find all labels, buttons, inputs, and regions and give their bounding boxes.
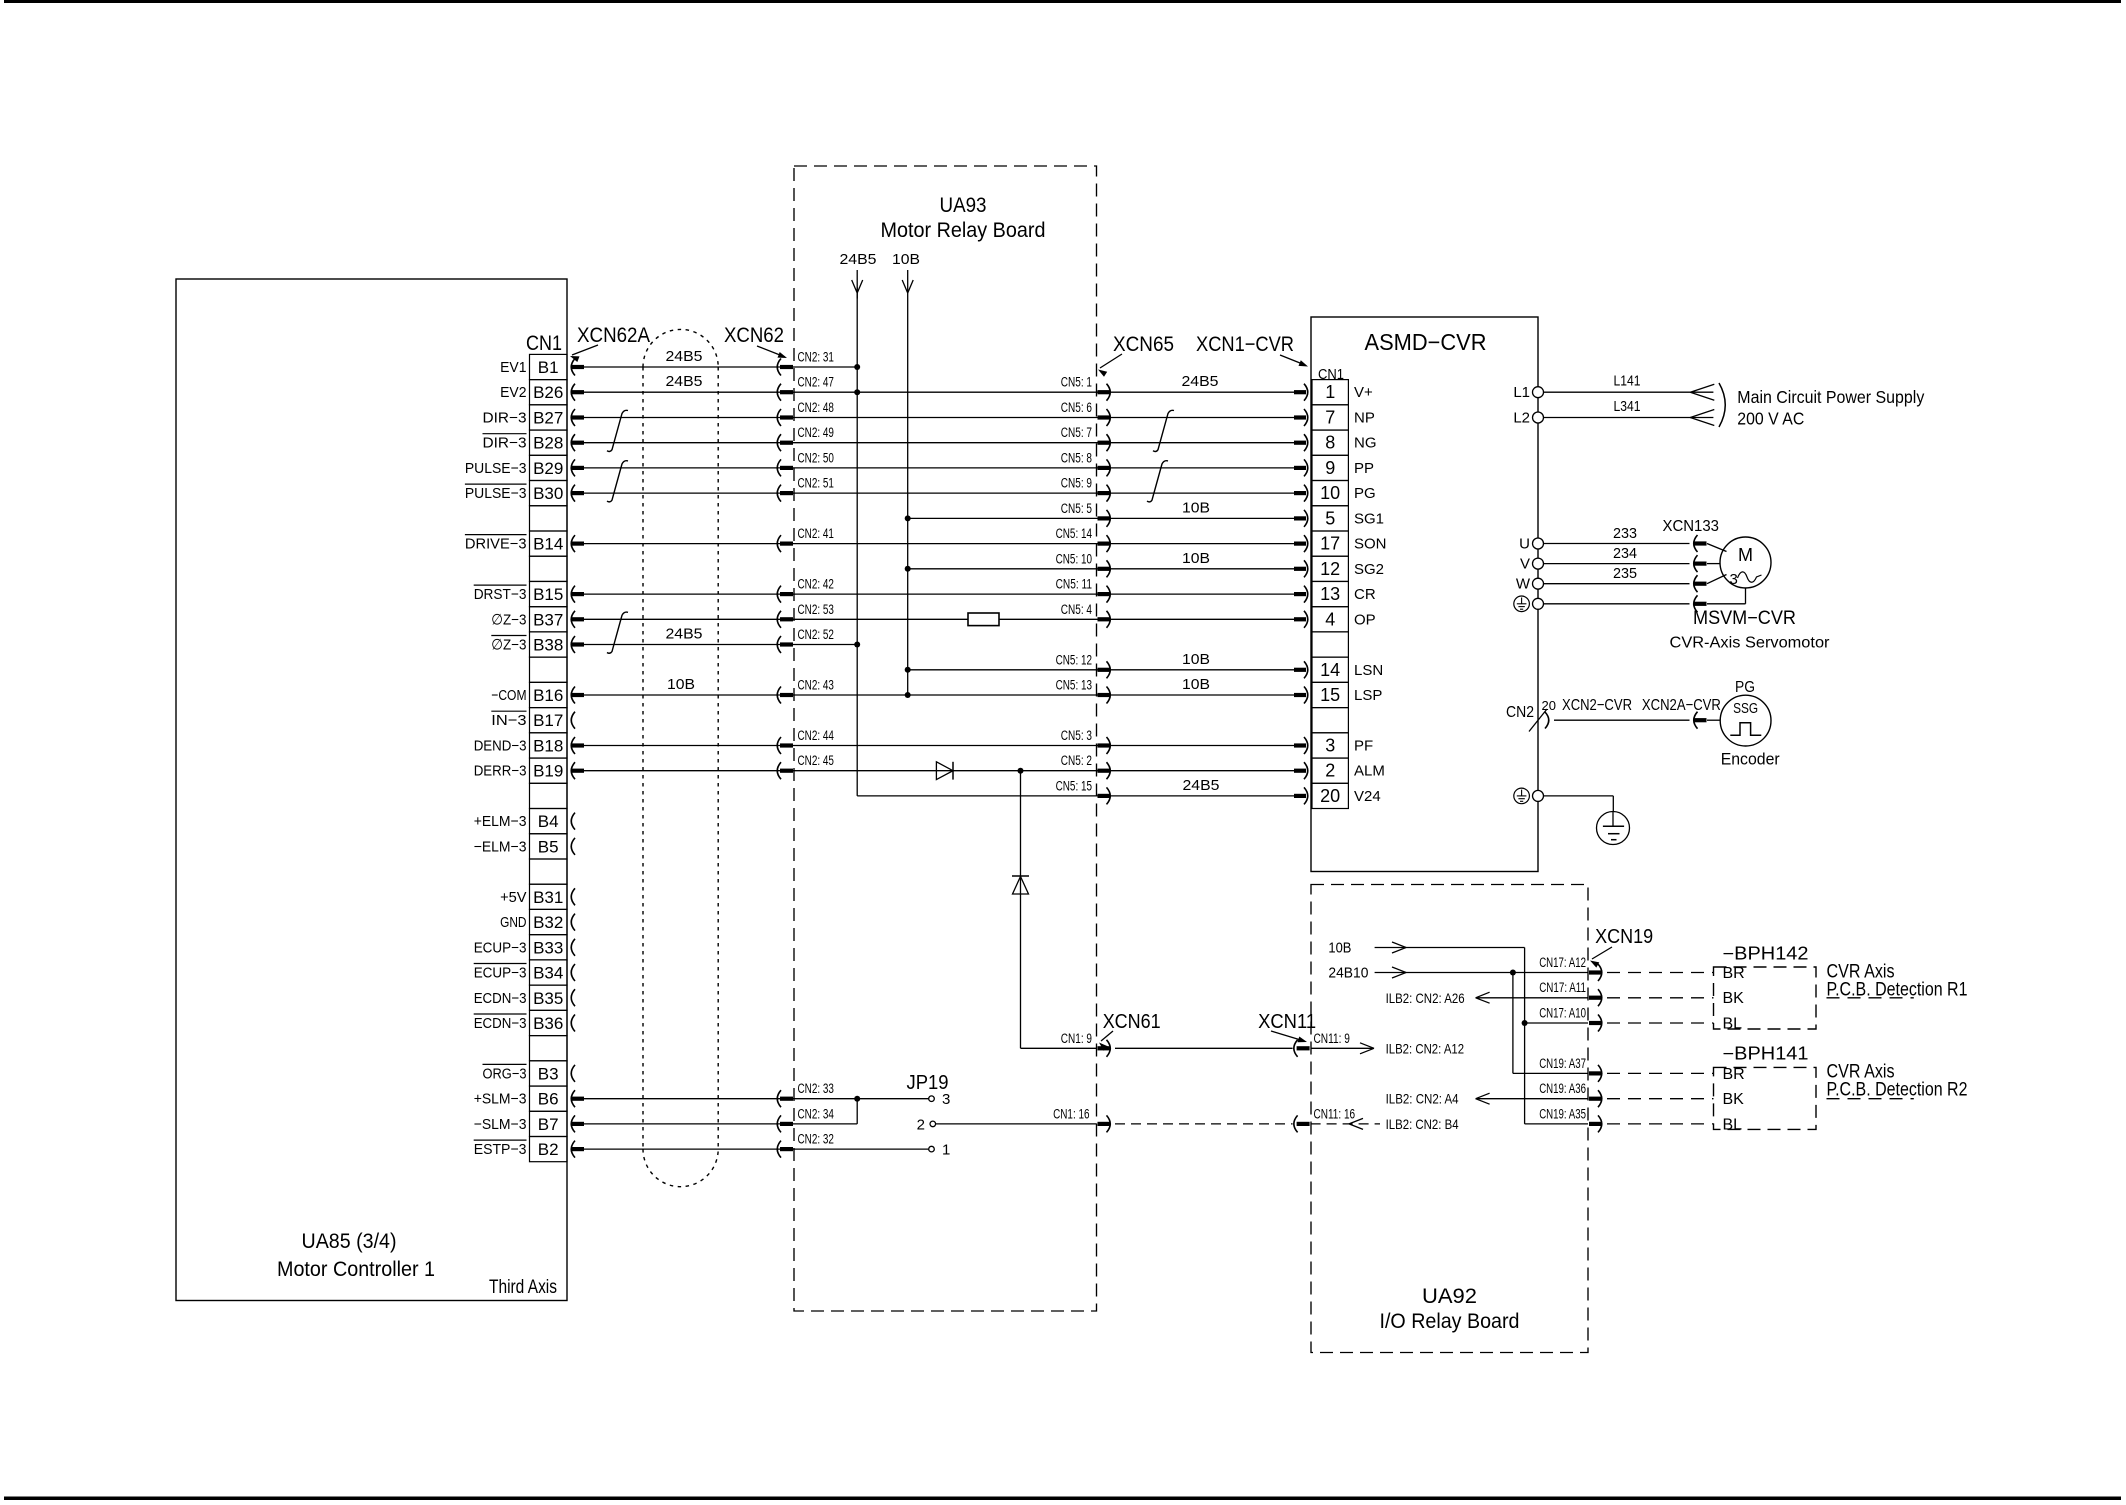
CN1 pin cell empty row 27 (530, 1036, 568, 1061)
svg-text:235: 235 (1613, 565, 1637, 582)
wire PE to earth (1544, 795, 1614, 797)
connector XCN62 CN2:31 (777, 359, 781, 376)
connector pin B19 (571, 762, 575, 779)
connector XCN62 CN2:42 (777, 586, 781, 603)
wire row CN2: 49 CN5: 7 (584, 442, 1294, 444)
motor circle MSVM-CVR (1720, 537, 1771, 588)
connector XCN11 CN11:9 (1294, 1040, 1298, 1057)
dashed wire CN17: A10 to BPH (1607, 1022, 1714, 1024)
svg-text:20: 20 (1542, 698, 1556, 713)
svg-text:CN5: 10: CN5: 10 (1056, 551, 1092, 566)
svg-text:B34: B34 (533, 964, 563, 983)
svg-text:CN11: 9: CN11: 9 (1314, 1031, 1350, 1046)
wire B26 CN2:47 CN5:1 to ASMD pin1 (584, 391, 1294, 393)
svg-text:24B10: 24B10 (1328, 965, 1368, 982)
svg-text:CN1: 16: CN1: 16 (1053, 1106, 1089, 1121)
wire row CN2: 48 CN5: 6 (584, 417, 1294, 419)
connector XCN62 CN2:45 (777, 762, 781, 779)
wire B7 CN2:34 elbow (584, 1123, 857, 1125)
connector ASMD SG2 (1294, 567, 1306, 571)
connector CN5:1 (1098, 390, 1110, 394)
wire 24B5 vertical (856, 270, 858, 796)
terminal PE motor (1533, 598, 1544, 609)
connector pin B3 (571, 1065, 575, 1082)
dashed stub to ILB2 CN2:B4 (1311, 1123, 1380, 1125)
svg-text:CN5: 12: CN5: 12 (1056, 652, 1092, 667)
svg-text:B26: B26 (533, 383, 563, 402)
arrow 24B5 down (852, 280, 858, 293)
dashed wire CN17: A12 to BPH (1607, 972, 1714, 974)
wire 10B to CN5:5 SG1 (908, 517, 1294, 519)
svg-text:B33: B33 (533, 938, 563, 957)
wire 10B to CN5:10 SG2 (908, 568, 1294, 570)
svg-text:CN2: 32: CN2: 32 (798, 1132, 834, 1147)
svg-text:10B: 10B (1182, 499, 1210, 516)
svg-text:LSP: LSP (1354, 687, 1382, 704)
svg-text:CN17: A12: CN17: A12 (1539, 955, 1586, 970)
wire B1 to CN2:31 (584, 366, 857, 368)
CN1 pin cell B33 (530, 935, 568, 960)
JP19 pin 3 (929, 1096, 935, 1102)
svg-text:B6: B6 (538, 1090, 559, 1109)
connector pin B14 (571, 535, 575, 552)
svg-text:SG1: SG1 (1354, 510, 1384, 527)
earth ground symbol (1597, 812, 1630, 845)
svg-text:ILB2: CN2: A26: ILB2: CN2: A26 (1386, 990, 1465, 1006)
connector pin B35 (571, 989, 575, 1006)
svg-text:DRIVE−3: DRIVE−3 (465, 536, 527, 553)
connector pin B15 (571, 586, 575, 603)
connector CN5:10 (1098, 567, 1110, 571)
arrow XCN19 (1592, 947, 1612, 959)
arrow XCN62 (757, 346, 785, 357)
ASMD CN1 pin cell 17 (1312, 531, 1348, 556)
arrow XCN61 (1101, 1031, 1113, 1041)
svg-text:7: 7 (1325, 408, 1335, 428)
wire B38 CN2:52 to 24B5 (584, 644, 857, 646)
svg-text:W: W (1516, 576, 1531, 593)
resistor on OP line (968, 613, 999, 626)
arrow 10B down (902, 280, 908, 293)
svg-text:XCN62A: XCN62A (577, 324, 650, 347)
svg-text:CN5: 5: CN5: 5 (1061, 501, 1092, 516)
svg-text:ECDN−3: ECDN−3 (474, 1015, 527, 1032)
svg-text:CN2: 49: CN2: 49 (798, 425, 834, 440)
wire CN1:9 to XCN11 (1115, 1047, 1293, 1049)
svg-text:CN5: 4: CN5: 4 (1061, 602, 1093, 617)
connector pin B16 (571, 687, 575, 704)
connector CN5:12 (1098, 668, 1110, 672)
svg-text:20: 20 (1320, 786, 1340, 806)
connector CN5:14 (1098, 542, 1110, 546)
UA93 Motor Relay Board dashed box (794, 166, 1097, 1311)
svg-text:3: 3 (1730, 571, 1738, 588)
svg-text:CN5: 15: CN5: 15 (1056, 778, 1092, 793)
CN1 pin cell B37 (530, 607, 568, 632)
svg-text:B17: B17 (533, 711, 563, 730)
svg-text:Motor Relay Board: Motor Relay Board (881, 219, 1046, 242)
UA92 I/O Relay Board dashed box (1311, 885, 1588, 1353)
connector CN5: 8 (1098, 466, 1110, 470)
svg-text:CN5: 7: CN5: 7 (1061, 425, 1092, 440)
svg-text:−SLM−3: −SLM−3 (474, 1116, 527, 1133)
junction 10B CN5:5 (905, 515, 911, 521)
svg-text:P.C.B. Detection R2: P.C.B. Detection R2 (1827, 1080, 1968, 1101)
svg-text:14: 14 (1320, 660, 1340, 680)
PE symbol at ASMD ground (1514, 788, 1530, 804)
connector ASMD LSN (1294, 668, 1306, 672)
JP19 pin 2 (930, 1121, 936, 1127)
connector XCN62 CN2:43 (777, 687, 781, 704)
svg-text:CN2: 31: CN2: 31 (798, 350, 834, 365)
junction 24B5-B1 (854, 364, 860, 370)
svg-text:B30: B30 (533, 484, 563, 503)
ASMD-CVR servo amplifier box (1311, 317, 1538, 872)
svg-text:ECDN−3: ECDN−3 (474, 990, 527, 1007)
connector pin B36 (571, 1015, 575, 1032)
CN1 pin cell B32 (530, 909, 568, 934)
CN1 pin cell B29 (530, 455, 568, 480)
svg-text:B35: B35 (533, 989, 563, 1008)
svg-text:+5V: +5V (500, 889, 526, 906)
arrow XCN65 (1100, 354, 1122, 368)
wire B15 CN2:42 CN5:11 to CR (584, 593, 1294, 595)
connector XCN62 CN2:32 (777, 1141, 781, 1158)
wire row CN2: 50 CN5: 8 (584, 467, 1294, 469)
svg-text:CN17: A10: CN17: A10 (1539, 1006, 1586, 1021)
junction 10B CN5:13 (905, 692, 911, 698)
top border bar (4, 0, 2121, 3)
CN1 pin cell B3 (530, 1061, 568, 1086)
svg-text:24B5: 24B5 (1183, 777, 1220, 794)
CN1 pin cell B16 (530, 682, 568, 707)
svg-text:EV2: EV2 (500, 384, 526, 401)
svg-text:L2: L2 (1513, 410, 1530, 427)
wire 235 (1544, 583, 1690, 585)
svg-text:CN2: 34: CN2: 34 (798, 1106, 835, 1121)
svg-text:L341: L341 (1614, 398, 1641, 415)
svg-text:Main Circuit Power Supply: Main Circuit Power Supply (1737, 387, 1924, 407)
connector CN1:16 (1098, 1122, 1110, 1126)
bottom border bar (4, 1497, 2121, 1501)
wire ALM branch vertical (1020, 771, 1022, 1049)
svg-text:XCN2A−CVR: XCN2A−CVR (1642, 697, 1721, 714)
connector pin B6 (571, 1090, 575, 1107)
svg-text:CN2: 51: CN2: 51 (798, 476, 834, 491)
CN1 pin cell B17 (530, 708, 568, 733)
svg-text:DERR−3: DERR−3 (474, 763, 527, 780)
ASMD CN1 pin cell 14 (1312, 657, 1348, 682)
ASMD CN1 pin cell 9 (1312, 455, 1348, 480)
svg-text:NG: NG (1354, 435, 1377, 452)
svg-text:CN11: 16: CN11: 16 (1314, 1106, 1356, 1121)
svg-text:12: 12 (1320, 559, 1340, 579)
ASMD CN1 pin cell 8 (1312, 430, 1348, 455)
svg-text:CN2: 52: CN2: 52 (798, 627, 834, 642)
ASMD CN1 pin cell 7 (1312, 405, 1348, 430)
svg-text:ILB2: CN2: A4: ILB2: CN2: A4 (1386, 1091, 1459, 1107)
svg-text:15: 15 (1320, 685, 1340, 705)
connector CN2 slash (1529, 709, 1547, 732)
connector pin B33 (571, 939, 575, 956)
svg-text:B32: B32 (533, 913, 563, 932)
connector ASMD CR (1294, 592, 1306, 596)
CN1 pin cell B26 (530, 380, 568, 405)
svg-text:BK: BK (1723, 1091, 1745, 1108)
svg-text:CN19: A36: CN19: A36 (1539, 1081, 1586, 1096)
connector ASMD row4 (1294, 466, 1306, 470)
CN1 pin cell B18 (530, 733, 568, 758)
svg-text:−ELM−3: −ELM−3 (474, 838, 527, 855)
svg-text:BK: BK (1723, 990, 1745, 1007)
wire 10B to CN5:12 LSN (908, 669, 1294, 671)
connector ASMD PF (1294, 743, 1306, 747)
junction 10B branch A10 (1522, 1020, 1528, 1026)
connector pin B31 (571, 888, 575, 905)
encoder pulse symbol (1730, 723, 1761, 736)
svg-text:GND: GND (500, 914, 527, 931)
CN1 pin cell empty row 12 (530, 657, 568, 682)
svg-text:10B: 10B (892, 251, 920, 268)
twist mark PULSE pair left (607, 461, 628, 502)
svg-text:CN5: 6: CN5: 6 (1061, 400, 1092, 415)
CN1 pin cell B27 (530, 405, 568, 430)
brace power supply (1719, 383, 1725, 427)
svg-text:XCN65: XCN65 (1113, 333, 1174, 356)
connector CN5:5 (1098, 516, 1110, 520)
svg-text:BL: BL (1723, 1016, 1743, 1033)
svg-text:2: 2 (917, 1116, 925, 1133)
connector CN5:2 (1098, 769, 1110, 773)
svg-text:234: 234 (1613, 545, 1637, 562)
svg-text:CN2: 50: CN2: 50 (798, 450, 834, 465)
svg-text:2: 2 (1325, 761, 1335, 781)
svg-text:BL: BL (1723, 1116, 1743, 1133)
connector pin B1 (571, 359, 575, 376)
wire L141 (1544, 391, 1714, 393)
connector ASMD OP (1294, 617, 1306, 621)
junction ALM branch (1018, 768, 1024, 774)
svg-text:B29: B29 (533, 459, 563, 478)
connector ASMD row2 (1294, 415, 1306, 419)
svg-text:1: 1 (1325, 382, 1335, 402)
svg-text:CN2: 41: CN2: 41 (798, 526, 834, 541)
svg-text:∅Z−3: ∅Z−3 (491, 637, 526, 654)
wire 10B vertical (907, 270, 909, 695)
svg-text:Encoder: Encoder (1721, 750, 1780, 769)
connector pin B18 (571, 737, 575, 754)
wire U into motor (1707, 544, 1727, 552)
diode D2 zener to CN1:9 (1012, 875, 1029, 877)
wire B14 CN2:41 CN5:14 to SON (584, 543, 1294, 545)
CN1 pin cell B28 (530, 430, 568, 455)
wire JP19 pin2 to CN1:16 (936, 1123, 1097, 1125)
svg-text:CN5: 14: CN5: 14 (1056, 526, 1093, 541)
svg-text:−BPH142: −BPH142 (1723, 944, 1809, 964)
CN1 pin cell B15 (530, 582, 568, 607)
svg-text:−COM: −COM (491, 687, 526, 704)
ASMD CN1 pin cell 4 (1312, 607, 1348, 632)
connector XCN19 CN17: A10 (1589, 1021, 1601, 1025)
svg-text:PP: PP (1354, 460, 1374, 477)
svg-text:+SLM−3: +SLM−3 (474, 1091, 527, 1108)
svg-text:CN2: 45: CN2: 45 (798, 753, 834, 768)
svg-text:CN17: A11: CN17: A11 (1539, 980, 1586, 995)
svg-text:CN5: 2: CN5: 2 (1061, 753, 1092, 768)
svg-text:B18: B18 (533, 737, 563, 756)
connector XCN62 CN2: 49 (777, 434, 781, 451)
svg-text:B28: B28 (533, 434, 563, 453)
svg-text:Third Axis: Third Axis (489, 1277, 557, 1298)
connector pin B26 (571, 384, 575, 401)
junction 10B CN5:10 (905, 566, 911, 572)
CN1 pin cell B6 (530, 1086, 568, 1111)
connector pin B2 (571, 1141, 575, 1158)
svg-text:MSVM−CVR: MSVM−CVR (1693, 608, 1796, 629)
CN1 pin cell empty row 20 (530, 859, 568, 884)
svg-text:V24: V24 (1354, 788, 1381, 805)
PE symbol at ASMD (1514, 596, 1530, 612)
svg-text:DIR−3: DIR−3 (483, 410, 527, 427)
diode D1 on ALM line (936, 762, 953, 780)
svg-text:24B5: 24B5 (666, 348, 703, 365)
encoder circle SSG (1720, 695, 1771, 746)
svg-text:+ELM−3: +ELM−3 (474, 813, 527, 830)
svg-text:CN2: 42: CN2: 42 (798, 577, 834, 592)
svg-text:M: M (1738, 545, 1753, 565)
wire V into motor (1707, 563, 1720, 565)
svg-text:CVR-Axis Servomotor: CVR-Axis Servomotor (1670, 635, 1830, 652)
connector XCN133 W (1694, 575, 1698, 592)
CN1 pin cell B4 (530, 809, 568, 834)
dashed wire CN17: A11 to BPH (1607, 997, 1714, 999)
svg-text:CN5: 9: CN5: 9 (1061, 476, 1092, 491)
svg-text:B5: B5 (538, 837, 559, 856)
svg-text:24B5: 24B5 (840, 251, 877, 268)
svg-text:DIR−3: DIR−3 (483, 435, 527, 452)
svg-text:B19: B19 (533, 762, 563, 781)
connector ASMD V24 (1294, 794, 1306, 798)
connector CN5: 9 (1098, 491, 1110, 495)
connector pin B28 (571, 434, 575, 451)
wire 24B5 elbow to CN5:15 V24 (857, 795, 1294, 797)
connector XCN62 CN2:53 (777, 611, 781, 628)
ASMD CN1 pin cell 20 (1312, 783, 1348, 808)
wire ILB2 A26 arrow (1476, 997, 1588, 999)
wire CN1:16 to CN11:16 dashed (1115, 1123, 1293, 1125)
svg-text:9: 9 (1325, 458, 1335, 478)
arrow XCN62A (572, 345, 598, 355)
svg-text:ALM: ALM (1354, 763, 1385, 780)
junction 24B5-B38 (854, 642, 860, 648)
svg-text:CN19: A37: CN19: A37 (1539, 1056, 1586, 1071)
svg-text:3: 3 (942, 1091, 950, 1108)
svg-text:B7: B7 (538, 1115, 559, 1134)
svg-text:V: V (1520, 556, 1530, 573)
cable bundle dotted oval (643, 329, 718, 367)
svg-text:CN2: 43: CN2: 43 (798, 678, 834, 693)
svg-text:B1: B1 (538, 358, 559, 377)
wire row CN2: 51 CN5: 9 (584, 492, 1294, 494)
svg-text:UA93: UA93 (940, 194, 987, 217)
connector XCN19 CN19: A36 (1589, 1097, 1601, 1101)
svg-text:PG: PG (1735, 679, 1755, 696)
connector XCN62 CN2:44 (777, 737, 781, 754)
svg-text:10B: 10B (667, 676, 695, 693)
svg-text:CR: CR (1354, 586, 1376, 603)
CN1 pin cell B2 (530, 1137, 568, 1162)
svg-text:ECUP−3: ECUP−3 (474, 965, 527, 982)
wire B19 CN2:45 CN5:2 to ALM (584, 770, 1294, 772)
svg-text:CN1: CN1 (526, 332, 562, 355)
CN1 pin cell B14 (530, 531, 568, 556)
dashed wire CN19: A35 to BPH (1607, 1123, 1714, 1125)
ASMD CN1 pin cell empty (1312, 632, 1348, 657)
svg-text:Motor Controller 1: Motor Controller 1 (277, 1258, 435, 1281)
wire W into motor (1707, 575, 1727, 584)
svg-text:24B5: 24B5 (666, 626, 703, 643)
connector CN5:3 (1098, 743, 1110, 747)
svg-text:I/O Relay Board: I/O Relay Board (1380, 1310, 1520, 1333)
svg-text:ORG−3: ORG−3 (483, 1065, 527, 1082)
ASMD CN1 pin cell 2 (1312, 758, 1348, 783)
wire B6 CN2:33 to JP19 pin3 (584, 1098, 929, 1100)
svg-text:CN5: 8: CN5: 8 (1061, 450, 1092, 465)
svg-text:B27: B27 (533, 409, 563, 428)
svg-text:DRST−3: DRST−3 (474, 586, 527, 603)
svg-text:10B: 10B (1182, 651, 1210, 668)
connector XCN133 V (1694, 555, 1698, 572)
wire ILB2 A4 arrow (1476, 1098, 1588, 1100)
wire B2 CN2:32 to JP19 pin1 (584, 1148, 929, 1150)
wire 233 (1544, 543, 1690, 545)
CN1 pin cell B1 (530, 354, 568, 379)
connector XCN19 CN19: A37 (1589, 1071, 1601, 1075)
svg-text:CN2: 44: CN2: 44 (798, 728, 835, 743)
connector XCN62 CN2:41 (777, 535, 781, 552)
svg-text:10B: 10B (1182, 550, 1210, 567)
ASMD CN1 pin cell 1 (1312, 380, 1348, 405)
junction SLM (854, 1096, 860, 1102)
connector pin B37 (571, 611, 575, 628)
svg-text:BR: BR (1723, 1066, 1745, 1083)
svg-text:XCN133: XCN133 (1663, 518, 1720, 535)
CN1 pin cell B19 (530, 758, 568, 783)
CN1 pin cell B34 (530, 960, 568, 985)
ASMD CN1 pin cell 12 (1312, 556, 1348, 581)
svg-text:B3: B3 (538, 1064, 559, 1083)
junction 24B10 branch (1510, 970, 1516, 976)
svg-text:4: 4 (1325, 609, 1335, 629)
connector XCN11 CN11:16 (1294, 1115, 1298, 1132)
svg-text:B4: B4 (538, 812, 559, 831)
connector XCN133 PE (1694, 595, 1698, 612)
CN1 pin cell B31 (530, 884, 568, 909)
svg-text:10B: 10B (1182, 676, 1210, 693)
connector pin B38 (571, 636, 575, 653)
svg-text:CN5: 11: CN5: 11 (1056, 577, 1092, 592)
wire CN2 to encoder (1554, 719, 1690, 721)
svg-text:SG2: SG2 (1354, 561, 1384, 578)
connector XCN19 CN17: A12 (1589, 970, 1601, 974)
wire PE to motor (1544, 603, 1690, 605)
svg-text:XCN2−CVR: XCN2−CVR (1562, 697, 1632, 714)
connector XCN62 CN2:34 (777, 1115, 781, 1132)
connector CN5:13 (1098, 693, 1110, 697)
svg-text:3: 3 (1325, 736, 1335, 756)
svg-text:PG: PG (1354, 485, 1376, 502)
svg-text:∅Z−3: ∅Z−3 (491, 611, 526, 628)
